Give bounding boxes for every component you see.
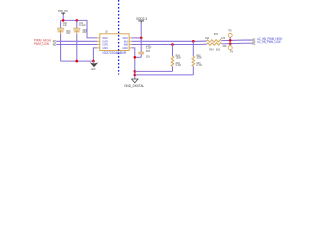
svg-text:GND2: GND2 — [102, 46, 108, 50]
wire GND1 descent — [132, 48, 135, 79]
wire 5V rail to VDD2 — [61, 20, 98, 38]
svg-text:100K: 100K — [196, 57, 202, 60]
pin GND2 — [97, 47, 100, 49]
svg-text:603: 603 — [146, 50, 151, 53]
wire GND2 to rail — [93, 48, 97, 61]
isolation barrier dashed line — [118, 0, 120, 75]
pin INA — [129, 40, 132, 42]
off-page connector PWM_LOW — [53, 43, 56, 46]
off-page connector PWM_HIGH — [53, 40, 56, 43]
capacitor C20 — [57, 20, 71, 61]
svg-text:TP6: TP6 — [230, 50, 234, 53]
resistor R23 series — [205, 33, 225, 42]
node junction VDD1 — [140, 37, 143, 40]
node junction INA/R65 — [192, 40, 195, 43]
svg-text:PW_5V: PW_5V — [58, 9, 68, 13]
capacitor C19 — [138, 38, 152, 58]
pin VDD2 — [97, 37, 100, 39]
wire VDD3.3 stem — [140, 23, 142, 38]
pin GND1 — [129, 47, 132, 49]
svg-text:ISO7220ADBVR: ISO7220ADBVR — [103, 51, 127, 55]
node junction rail/PW_5V — [62, 19, 65, 22]
wire INB run — [132, 44, 198, 46]
svg-text:25V: 25V — [83, 31, 87, 34]
test point TP5 — [228, 29, 232, 41]
svg-text:GND_DIGITAL: GND_DIGITAL — [124, 84, 144, 88]
ground AGND — [90, 61, 99, 71]
svg-text:25V: 25V — [146, 55, 150, 58]
wire VDD1 — [132, 37, 142, 39]
pin VDD1 — [129, 37, 132, 39]
svg-text:10K: 10K — [222, 45, 226, 48]
wire R64 to ground — [135, 70, 173, 72]
node junction gnd rail — [92, 60, 95, 63]
pin OUTA — [97, 40, 100, 42]
wire PW_5V stem — [62, 15, 64, 20]
wire INA diagonal — [198, 40, 207, 42]
svg-text:uC_HB_PWM_LOW: uC_HB_PWM_LOW — [257, 40, 280, 44]
wire OUTB to PWM_LOW — [56, 44, 97, 46]
wire C19 to gnd — [135, 56, 141, 58]
power symbol PW_5V — [58, 9, 68, 15]
off-page connector uC_HB_PWM_HIGH — [252, 39, 255, 42]
svg-text:25V: 25V — [66, 32, 70, 35]
node junction C21/gnd — [76, 60, 79, 63]
resistor R64 pull-down — [171, 45, 182, 72]
svg-text:VDD3.3: VDD3.3 — [136, 17, 147, 21]
IC U2 digital isolator — [97, 29, 132, 55]
capacitor C21 — [73, 20, 87, 61]
wire INA run — [132, 40, 198, 42]
svg-text:AGND: AGND — [91, 68, 96, 71]
svg-text:603: 603 — [216, 48, 221, 51]
node junction gnd/C19 — [134, 56, 137, 59]
wire OUTA to PWM_HIGH — [56, 40, 97, 42]
svg-text:1uF: 1uF — [63, 24, 68, 27]
resistor R65 pull-down — [192, 41, 203, 75]
svg-text:0.1W: 0.1W — [176, 64, 182, 67]
node junction INB/R64 — [171, 43, 174, 46]
pin INB — [129, 44, 132, 46]
svg-text:TP5: TP5 — [228, 29, 232, 32]
power symbol VDD3.3 — [136, 17, 147, 23]
wire R65 to ground — [135, 74, 194, 76]
svg-text:R23: R23 — [205, 37, 210, 40]
wire left ground rail — [61, 60, 94, 62]
resistor R24 series — [207, 43, 227, 52]
svg-text:U2: U2 — [105, 29, 108, 33]
svg-text:R24: R24 — [209, 48, 214, 51]
svg-text:100K: 100K — [176, 57, 182, 60]
svg-text:603: 603 — [214, 33, 219, 36]
node junction gnd/R64 — [134, 70, 137, 73]
svg-text:GND1: GND1 — [122, 46, 128, 50]
off-page connector uC_HB_PWM_LOW — [252, 42, 255, 45]
node junction rail/C21 — [76, 19, 79, 22]
svg-text:10K: 10K — [221, 37, 225, 40]
pin OUTB — [97, 44, 100, 46]
test point TP6 — [228, 42, 233, 53]
svg-text:0.1W: 0.1W — [196, 64, 202, 67]
svg-text:PWM_LOW: PWM_LOW — [34, 42, 50, 46]
ground GND_DIGITAL — [124, 79, 144, 88]
wire INB diagonal — [198, 43, 207, 45]
node junction gnd/R65 — [134, 74, 137, 77]
svg-text:0.1uF: 0.1uF — [79, 24, 86, 27]
